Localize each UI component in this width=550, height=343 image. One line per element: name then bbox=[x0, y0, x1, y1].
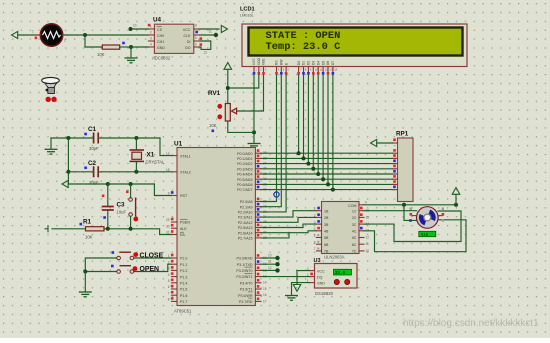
svg-text:P2.2/A10: P2.2/A10 bbox=[238, 211, 253, 215]
svg-text:CRYSTAL: CRYSTAL bbox=[146, 160, 166, 165]
junction +5V node bbox=[226, 86, 230, 90]
svg-text:DI: DI bbox=[187, 40, 191, 44]
svg-text:1B: 1B bbox=[324, 209, 329, 213]
junction D6/P0.6 bbox=[326, 182, 330, 186]
wire: P2.4 to ULN 2B bbox=[261, 217, 317, 222]
U1 pin P1.5 (6) bbox=[168, 285, 188, 292]
wire: thermistor to node A bbox=[63, 34, 85, 36]
svg-text:12: 12 bbox=[366, 235, 370, 239]
svg-text:LM016L: LM016L bbox=[240, 14, 254, 18]
U2 pin 2C (15) bbox=[352, 213, 369, 220]
svg-text:P3.2/INT0: P3.2/INT0 bbox=[236, 269, 252, 273]
U4 pin CS (1) bbox=[148, 24, 163, 32]
junction COM/+5V bbox=[454, 203, 458, 207]
svg-text:ALE: ALE bbox=[180, 227, 187, 231]
wire: CLK net 11 bbox=[200, 30, 218, 38]
svg-text:CS: CS bbox=[157, 28, 163, 32]
U2 pin 5B bbox=[314, 234, 329, 240]
svg-text:4: 4 bbox=[150, 43, 152, 47]
svg-text:9: 9 bbox=[365, 201, 367, 205]
svg-text:10K: 10K bbox=[85, 235, 93, 240]
wire: CS stub with net label 10 bbox=[129, 24, 149, 32]
U1 pin XTAL1 (19) bbox=[166, 152, 191, 159]
svg-text:D4: D4 bbox=[316, 61, 320, 65]
svg-text:P3.1/TXD: P3.1/TXD bbox=[237, 263, 253, 267]
wire: P2.5 to ULN 3B bbox=[261, 224, 317, 227]
U2 pin 1B bbox=[314, 207, 329, 214]
wire: P0.3 bus line to RP1 bbox=[261, 168, 393, 170]
U2 pin 7B bbox=[314, 247, 329, 253]
driver U2 ULN2003A body bbox=[322, 202, 360, 260]
junction reset button top bbox=[129, 182, 133, 186]
ground (U3) bbox=[285, 296, 298, 301]
wire: LCD D4 column bbox=[317, 75, 319, 174]
wire: node A down to resistor bbox=[85, 35, 102, 47]
svg-text:AT89C51: AT89C51 bbox=[174, 309, 192, 314]
svg-text:D5: D5 bbox=[321, 61, 325, 65]
svg-text:P0.7/AD7: P0.7/AD7 bbox=[237, 188, 252, 192]
RP1 pin 5 bbox=[393, 165, 398, 169]
ground terminal (down arrow) bbox=[293, 285, 301, 292]
U1 pin P1.4 (5) bbox=[168, 279, 188, 286]
U1 pin P2.1/A9 (22) bbox=[240, 203, 267, 210]
svg-text:14: 14 bbox=[334, 68, 338, 72]
svg-text:12: 12 bbox=[324, 68, 328, 72]
reset button bbox=[126, 184, 138, 229]
svg-text:16: 16 bbox=[263, 293, 267, 297]
junction D5/P0.5 bbox=[321, 177, 325, 181]
U2 pin 4B bbox=[314, 227, 329, 234]
svg-text:C1: C1 bbox=[88, 126, 97, 133]
thermistor RT1 bbox=[32, 24, 66, 46]
svg-text:LCD1: LCD1 bbox=[240, 7, 255, 13]
U1 pin P0.1/AD1 (38) bbox=[237, 155, 267, 162]
wire: COM drop to motor left-bottom bbox=[404, 205, 417, 221]
wire: OPEN to P1.1 bbox=[134, 264, 172, 271]
svg-text:P2.1/A9: P2.1/A9 bbox=[240, 205, 253, 209]
svg-text:3: 3 bbox=[168, 267, 170, 271]
svg-text:P1.6: P1.6 bbox=[180, 294, 187, 298]
wire: LCD VSS to ground bbox=[253, 75, 255, 143]
svg-text:3B: 3B bbox=[324, 223, 329, 227]
svg-text:RP1: RP1 bbox=[396, 131, 409, 138]
svg-text:29: 29 bbox=[166, 218, 170, 222]
wire: LCD D0 column bbox=[298, 75, 300, 153]
svg-text:2: 2 bbox=[64, 39, 66, 43]
svg-text:P1.7: P1.7 bbox=[180, 300, 187, 304]
wire: P3.3 to DS18B20 DQ bbox=[261, 276, 310, 278]
svg-text:10: 10 bbox=[366, 249, 370, 253]
wire: P0.6 bus line to RP1 bbox=[261, 183, 393, 185]
svg-text:4: 4 bbox=[168, 273, 170, 277]
wire: RP1 pin1 to power arrow bbox=[377, 142, 393, 144]
svg-text:P0.1/AD1: P0.1/AD1 bbox=[237, 157, 252, 161]
U1 pin P3.2/INT0 (12) bbox=[236, 267, 266, 274]
svg-text:P1.3: P1.3 bbox=[180, 275, 187, 279]
svg-text:PSEN: PSEN bbox=[180, 221, 190, 225]
U2 pin 3C (14) bbox=[352, 220, 369, 227]
U4 pin CLK (7) bbox=[184, 30, 200, 38]
svg-text:P0.4/AD4: P0.4/AD4 bbox=[237, 173, 252, 177]
wire: LCD VEE to RV1 wiper bbox=[238, 75, 264, 111]
svg-text:2: 2 bbox=[150, 31, 152, 35]
wire: U2 1C to motor left-top bbox=[364, 210, 417, 212]
svg-text:P2.5/A13: P2.5/A13 bbox=[238, 226, 253, 230]
LCD pin names (rotated) bbox=[252, 57, 335, 65]
wire: VCC to power arrow bbox=[200, 28, 219, 30]
junction D2/P0.2 bbox=[306, 162, 310, 166]
wire: gnd node to C1 bbox=[51, 137, 94, 139]
svg-text:P0.5/AD5: P0.5/AD5 bbox=[237, 178, 252, 182]
svg-text:EA: EA bbox=[180, 233, 185, 237]
U1 pin P0.7/AD7 (32) bbox=[237, 186, 267, 193]
wire: LCD D6 column bbox=[327, 75, 329, 184]
U1 pin P1.6 (7) bbox=[168, 291, 188, 298]
svg-text:D2: D2 bbox=[307, 61, 311, 65]
svg-text:P0.6/AD6: P0.6/AD6 bbox=[237, 183, 252, 187]
U1 pin P1.0 (1) bbox=[168, 254, 188, 261]
svg-text:P3.7/RD: P3.7/RD bbox=[239, 300, 253, 304]
svg-text:11: 11 bbox=[366, 242, 370, 246]
svg-text:P1.1: P1.1 bbox=[180, 263, 187, 267]
wire: P0.0 bus line to RP1 bbox=[261, 152, 393, 154]
U3 pin GND (1) bbox=[307, 279, 326, 285]
svg-text:https://blog.csdn.net/kkkkkkct: https://blog.csdn.net/kkkkkkct1 bbox=[403, 318, 539, 329]
svg-text:2: 2 bbox=[307, 273, 309, 277]
U2 pin 4C (13) bbox=[352, 227, 369, 234]
power terminal +5V (up arrow above RV1) bbox=[224, 63, 232, 104]
ground (buttons) bbox=[79, 292, 92, 297]
U2 pin 6C (11) bbox=[352, 242, 369, 247]
U1 pin P1.1 (2) bbox=[168, 260, 188, 267]
junction node A bbox=[83, 33, 87, 37]
svg-text:P3.3/INT1: P3.3/INT1 bbox=[236, 275, 252, 279]
svg-text:U1: U1 bbox=[174, 141, 183, 148]
U1 pin P0.3/AD3 (36) bbox=[237, 165, 267, 172]
U1 pin P2.5/A13 (26) bbox=[238, 224, 267, 231]
svg-text:GND: GND bbox=[317, 281, 325, 285]
U1 pin P0.5/AD5 (34) bbox=[237, 175, 267, 182]
svg-text:10: 10 bbox=[315, 68, 319, 72]
U4 pin DI (5) bbox=[187, 36, 202, 44]
svg-text:X1: X1 bbox=[147, 152, 155, 159]
svg-text:D7: D7 bbox=[331, 61, 335, 65]
junction crystal top bbox=[134, 136, 138, 140]
svg-text:4C: 4C bbox=[352, 230, 357, 234]
wire: LCD VDD to +5V node bbox=[228, 75, 259, 88]
wire: CLOSE to P1.0 bbox=[134, 257, 172, 259]
U1 pin EA (31) bbox=[166, 230, 185, 237]
junction D3/P0.3 bbox=[311, 167, 315, 171]
svg-text:10K: 10K bbox=[209, 123, 217, 128]
svg-text:12: 12 bbox=[268, 266, 272, 270]
U1 pin P2.6/A14 (27) bbox=[238, 229, 267, 236]
svg-text:10K: 10K bbox=[97, 52, 105, 57]
svg-text:D3: D3 bbox=[312, 61, 316, 65]
junction C1 left bbox=[66, 136, 70, 140]
wire: crystal top node to XTAL1 bbox=[160, 138, 172, 156]
svg-text:VCC: VCC bbox=[317, 269, 325, 273]
svg-text:11: 11 bbox=[320, 68, 323, 72]
svg-text:7C: 7C bbox=[352, 250, 357, 254]
svg-text:D6: D6 bbox=[326, 61, 330, 65]
svg-text:9: 9 bbox=[168, 192, 170, 196]
svg-text:Temp: 23.0 C: Temp: 23.0 C bbox=[266, 41, 341, 53]
svg-text:RW: RW bbox=[280, 59, 284, 65]
svg-text:DS18B20: DS18B20 bbox=[315, 291, 334, 296]
node: blue probe ring on RS column bbox=[274, 192, 279, 197]
U1 pin P1.2 (3) bbox=[168, 266, 188, 273]
svg-text:11: 11 bbox=[268, 260, 272, 264]
U4 pin CH1 (3) bbox=[149, 37, 165, 45]
U1 pin P0.2/AD2 (37) bbox=[237, 160, 267, 167]
wire: DI-DO tie, net 12 bbox=[200, 41, 211, 55]
svg-text:30: 30 bbox=[166, 224, 170, 228]
ground (under R2) bbox=[125, 58, 138, 63]
wire: P0.5 bus line to RP1 bbox=[261, 178, 393, 180]
power terminal (right arrow) bbox=[221, 25, 227, 32]
U2 pin 5C (12) bbox=[352, 235, 369, 240]
wire: rail down to ground bbox=[84, 272, 86, 292]
power terminal +5V (up arrow right) bbox=[452, 188, 460, 205]
U2 pin 2B bbox=[314, 213, 329, 220]
U1 pin P1.7 (8) bbox=[168, 297, 188, 304]
wire: C2 left bbox=[68, 171, 93, 173]
terminal arrow (RST rail) bbox=[62, 180, 68, 187]
wire: U2 4C to motor right-bottom bbox=[364, 220, 466, 252]
junction D7/P0.7 bbox=[331, 188, 335, 192]
svg-text:6: 6 bbox=[195, 43, 197, 47]
U3 pin VCC (3) bbox=[307, 267, 325, 273]
svg-text:5: 5 bbox=[168, 279, 170, 283]
junction D4/P0.4 bbox=[316, 172, 320, 176]
svg-text:R1: R1 bbox=[83, 219, 92, 226]
svg-text:CH0: CH0 bbox=[157, 34, 164, 38]
resistor pack RP1 bbox=[396, 131, 413, 202]
U1 pin P3.4/T0 (14) bbox=[240, 279, 267, 286]
svg-text:GND: GND bbox=[157, 46, 165, 50]
svg-text:P2.7/A15: P2.7/A15 bbox=[238, 237, 253, 241]
wire: C2 right to XTAL2 bbox=[98, 171, 171, 173]
svg-text:P2.3/A11: P2.3/A11 bbox=[238, 216, 253, 220]
RP1 pin 3 bbox=[393, 154, 398, 158]
ground (C1/C2) bbox=[45, 138, 58, 154]
U1 pin P2.7/A15 (28) bbox=[238, 234, 267, 241]
svg-text:P1.4: P1.4 bbox=[180, 282, 187, 286]
svg-text:15: 15 bbox=[366, 215, 370, 219]
U1 pin P2.4/A12 (25) bbox=[238, 218, 267, 225]
svg-text:10uF: 10uF bbox=[117, 210, 127, 215]
svg-text:ULN2003A: ULN2003A bbox=[324, 255, 345, 260]
svg-text:23.0: 23.0 bbox=[335, 272, 346, 276]
svg-text:17: 17 bbox=[263, 299, 267, 303]
svg-text:5B: 5B bbox=[324, 236, 329, 240]
junction buttons ground rail bbox=[83, 270, 87, 274]
LCD pin state markers bbox=[253, 72, 335, 75]
svg-text:CH1: CH1 bbox=[157, 40, 164, 44]
svg-text:7B: 7B bbox=[324, 250, 329, 254]
svg-text:P2.0/A8: P2.0/A8 bbox=[240, 200, 253, 204]
potentiometer RV1 10K bbox=[208, 90, 237, 132]
svg-text:COM: COM bbox=[348, 204, 356, 208]
svg-text:15: 15 bbox=[263, 287, 267, 291]
svg-text:30pF: 30pF bbox=[89, 146, 99, 151]
svg-text:18: 18 bbox=[166, 168, 170, 172]
wire: C1 left rail down to C2 bbox=[67, 138, 69, 184]
wire: LCD RS column to P2.0 bbox=[261, 75, 277, 202]
junction C2 left bbox=[66, 170, 70, 174]
svg-text:8: 8 bbox=[195, 24, 197, 28]
svg-text:ADC0832: ADC0832 bbox=[152, 56, 171, 61]
U1 pin P3.1/TXD (11) bbox=[237, 260, 267, 267]
wire: resistor to ground node B bbox=[120, 46, 131, 48]
U1 pin P3.0/RXD (10) bbox=[237, 254, 267, 261]
svg-text:10: 10 bbox=[268, 254, 272, 258]
svg-text:1: 1 bbox=[168, 254, 170, 258]
resistor R1 bbox=[80, 219, 105, 240]
wire: P0.2 bus line to RP1 bbox=[261, 163, 393, 165]
svg-text:13: 13 bbox=[329, 68, 333, 72]
svg-text:1: 1 bbox=[314, 207, 316, 211]
svg-text:4: 4 bbox=[314, 227, 316, 231]
U4 pin CH0 (2) bbox=[149, 31, 165, 39]
wire: LCD RW column to P2.1 bbox=[261, 75, 281, 207]
ground (LCD VSS) bbox=[248, 144, 261, 149]
wire: node B to ground bbox=[130, 47, 132, 58]
svg-text:2C: 2C bbox=[352, 216, 357, 220]
wire: P3.2 net 12 bbox=[261, 269, 278, 271]
svg-text:3: 3 bbox=[150, 37, 152, 41]
wire: RST rail to MCU RST pin bbox=[154, 184, 171, 196]
svg-text:6B: 6B bbox=[324, 243, 329, 247]
U1 pin P3.6/WR (16) bbox=[238, 291, 267, 298]
svg-text:D1: D1 bbox=[302, 61, 306, 65]
wire: P0.7 bus line to RP1 bbox=[261, 189, 393, 191]
svg-text:8: 8 bbox=[168, 298, 170, 302]
wire: P3.0 net 10 bbox=[261, 257, 278, 259]
svg-text:3C: 3C bbox=[352, 223, 357, 227]
wire: U3 GND to ground bbox=[292, 283, 310, 295]
svg-text:2: 2 bbox=[168, 260, 170, 264]
wire: LCD E column to P2.2 bbox=[261, 75, 286, 212]
op-amp U4 ADC0832 body bbox=[152, 17, 194, 61]
svg-text:VDD: VDD bbox=[257, 57, 261, 65]
U1 pin P0.6/AD6 (33) bbox=[237, 181, 267, 188]
RP1 pin 6 bbox=[393, 170, 398, 174]
U2 pin 3B bbox=[314, 220, 329, 227]
crystal X1 bbox=[130, 138, 166, 172]
svg-text:6: 6 bbox=[168, 285, 170, 289]
svg-text:RV1: RV1 bbox=[208, 90, 221, 97]
wire: LCD D7 column bbox=[332, 75, 334, 190]
U1 pin RST (9) bbox=[168, 191, 188, 198]
wire: RST rail bbox=[68, 183, 154, 185]
capacitor C1 bbox=[84, 126, 99, 151]
U1 pin P2.2/A10 (23) bbox=[238, 208, 267, 215]
wire: U2 3C to motor right-top bbox=[364, 211, 461, 242]
power terminal (left arrow at RP1) bbox=[371, 139, 377, 146]
svg-text:7: 7 bbox=[314, 247, 316, 251]
junction C3 top bbox=[106, 182, 110, 186]
wire: LCD D5 column bbox=[322, 75, 324, 179]
RP1 pin 4 bbox=[393, 160, 398, 164]
svg-text:CLK: CLK bbox=[184, 34, 192, 38]
wire: node B to U4 GND pin bbox=[131, 46, 149, 48]
svg-text:RS: RS bbox=[275, 60, 279, 65]
svg-text:P1.5: P1.5 bbox=[180, 288, 187, 292]
svg-text:1C: 1C bbox=[352, 209, 357, 213]
svg-text:P3.5/T1: P3.5/T1 bbox=[240, 288, 253, 292]
svg-text:RST: RST bbox=[180, 194, 188, 198]
speaker LS1 bbox=[42, 77, 60, 102]
svg-text:P1.0: P1.0 bbox=[180, 257, 187, 261]
wire: CLOSE left to ground rail bbox=[85, 258, 117, 272]
svg-text:P3.4/T0: P3.4/T0 bbox=[240, 281, 253, 285]
svg-text:D0: D0 bbox=[297, 61, 301, 65]
RP1 pin 2 bbox=[393, 149, 398, 153]
U3 pin DQ (2) bbox=[307, 273, 323, 279]
junction D0/P0.0 bbox=[297, 151, 301, 155]
junction COM/motor-left bbox=[402, 203, 406, 207]
wire: COM rail to +5V bbox=[364, 204, 456, 206]
svg-text:P2.6/A14: P2.6/A14 bbox=[238, 231, 253, 235]
junction C3 bottom bbox=[106, 227, 110, 231]
U2 pin 7C (10) bbox=[352, 249, 369, 254]
svg-text:P3.6/WR: P3.6/WR bbox=[238, 294, 253, 298]
LCD pin numbers bbox=[255, 68, 337, 72]
LCD1 LM016L bbox=[240, 7, 467, 67]
terminal arrow (left, thermistor input) bbox=[12, 31, 41, 38]
resistor R2 10K bbox=[97, 42, 125, 57]
svg-text:12: 12 bbox=[204, 51, 208, 55]
svg-text:XTAL1: XTAL1 bbox=[180, 154, 191, 158]
svg-text:P3.0/RXD: P3.0/RXD bbox=[237, 257, 253, 261]
svg-text:C2: C2 bbox=[88, 160, 97, 167]
U4 pin VCC (8) bbox=[183, 24, 200, 33]
U2 pin COM (9) bbox=[348, 201, 367, 208]
push button OPEN bbox=[111, 265, 159, 274]
wire: R1 left to terminal bbox=[52, 228, 86, 230]
wire: U3 VCC to ground arrow bbox=[297, 271, 310, 284]
svg-text:U4: U4 bbox=[153, 17, 162, 24]
svg-text:6C: 6C bbox=[352, 243, 357, 247]
stepper motor M1 bbox=[409, 207, 444, 229]
svg-text:5C: 5C bbox=[352, 236, 357, 240]
svg-text:XTAL2: XTAL2 bbox=[180, 171, 191, 175]
U2 pin 1C (16) bbox=[352, 207, 369, 214]
junction VSS / RV1 bottom bbox=[252, 130, 256, 134]
wire: P0.4 bus line to RP1 bbox=[261, 173, 393, 175]
svg-text:VEE: VEE bbox=[262, 58, 266, 65]
svg-text:C3: C3 bbox=[117, 202, 126, 209]
wire: C1 right to crystal top node bbox=[98, 137, 160, 139]
svg-text:2: 2 bbox=[314, 214, 316, 218]
svg-text:VCC: VCC bbox=[183, 28, 191, 32]
terminal stub (R1 left) bbox=[45, 225, 49, 232]
wire: LCD D2 column bbox=[307, 75, 309, 164]
wire: P2.3 to ULN 1B bbox=[261, 211, 317, 217]
RP1 pin 9 bbox=[393, 186, 398, 190]
U1 pin P2.3/A11 (24) bbox=[238, 213, 267, 220]
wire: P2.7 stub bbox=[261, 233, 289, 238]
push button CLOSE bbox=[112, 251, 164, 260]
U1 pin P0.4/AD4 (35) bbox=[237, 170, 267, 177]
U1 pin P2.0/A8 (21) bbox=[240, 198, 267, 205]
wire: C3 bottom rail to MCU EA bbox=[104, 229, 172, 235]
svg-text:P1.2: P1.2 bbox=[180, 269, 187, 273]
wire: RV1 bottom to VSS rail bbox=[228, 121, 254, 132]
U1 pin P3.5/T1 (15) bbox=[240, 285, 267, 292]
